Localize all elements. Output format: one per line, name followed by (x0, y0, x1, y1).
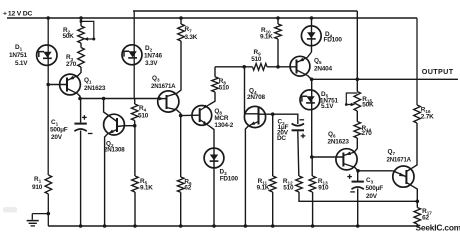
wire upper rail drop (356, 11, 358, 92)
svg-text:910: 910 (318, 185, 329, 192)
wire Q2 base lead (104, 99, 117, 122)
svg-text:510: 510 (251, 56, 262, 63)
label Q8 type (214, 115, 233, 129)
label D3 value (220, 176, 239, 183)
node C1 ground junction (79, 224, 83, 228)
label R8 value (219, 85, 230, 92)
node +12V/D4 junction (310, 16, 314, 20)
label R4 value (138, 113, 149, 120)
resistor R13 (309, 176, 316, 192)
wire junction to R6 (180, 116, 182, 177)
label C2 value (277, 124, 289, 142)
label R12 value (283, 185, 294, 192)
node +12V/D1 junction (46, 16, 50, 20)
label R4 (139, 105, 147, 113)
wire rail to R10 (277, 18, 279, 24)
resistor R3 (78, 48, 85, 68)
label D1 value (9, 52, 28, 67)
wire bus to R4 (134, 99, 136, 105)
node C1 junction (78, 97, 82, 101)
wire Q2 collector (124, 125, 134, 127)
resistor R11 (269, 176, 276, 192)
svg-text:270: 270 (362, 130, 373, 137)
wire R8 drop (214, 67, 216, 77)
svg-text:2.7K: 2.7K (421, 114, 434, 121)
wire R1 to ground node (47, 194, 49, 214)
label Q6 (328, 131, 336, 139)
svg-text:500μF: 500μF (50, 127, 68, 134)
transistor Q1 (60, 74, 81, 95)
wire Q7 B1 to R17 (412, 186, 418, 208)
wire D1 column (47, 18, 49, 175)
transistor Q5 (290, 56, 310, 76)
node R10/Q5 junction (276, 65, 280, 69)
label OUTPUT (422, 67, 454, 76)
svg-text:2N1623: 2N1623 (84, 85, 106, 92)
wire junction to R13 (311, 157, 313, 176)
svg-text:9.1K: 9.1K (260, 34, 273, 41)
transistor Q4 (244, 106, 272, 127)
svg-text:9.1K: 9.1K (257, 185, 270, 192)
label D2 value (144, 53, 162, 68)
node upper-rail/output junction (356, 78, 360, 82)
label R11 (258, 178, 268, 186)
label R12 (283, 178, 293, 186)
wire R8 to Q8 anode (209, 92, 215, 105)
svg-text:270: 270 (66, 61, 77, 68)
wire R16 to Q7 B2 (412, 123, 417, 168)
wire ground stub (47, 214, 49, 226)
node Q3/R6/Q8 junction (179, 114, 183, 118)
wire R11 drop (272, 114, 274, 176)
label D3 (220, 169, 228, 177)
SCR Q8 (192, 105, 212, 126)
label R13 (318, 178, 328, 186)
label C1 plus (82, 115, 87, 120)
label R2 (63, 27, 71, 35)
label Q2 type (104, 147, 125, 154)
label C3 plus (347, 174, 352, 179)
svg-text:5.1V: 5.1V (15, 60, 28, 67)
svg-text:5.1V: 5.1V (321, 103, 334, 110)
label R17 (422, 208, 432, 216)
wire R15-R14 (356, 111, 358, 122)
label D5 value (320, 97, 338, 110)
label R3 (66, 54, 74, 62)
svg-text:2N708: 2N708 (247, 94, 265, 101)
wire Q1 collector down (77, 94, 80, 99)
label R9 value (251, 56, 262, 63)
node Q2 base junction (102, 97, 106, 101)
capacitor C1 (74, 124, 86, 132)
wire R8 top to R9 (215, 66, 253, 68)
wire R11 to ground rail (272, 192, 274, 226)
node R13 ground junction (311, 224, 315, 228)
label Q5 (314, 58, 322, 66)
wire R4 to junction (134, 121, 136, 126)
wire R14 to Q6 emitter (354, 138, 357, 152)
svg-text:9.1K: 9.1K (140, 185, 153, 192)
svg-text:2N1671A: 2N1671A (387, 157, 412, 164)
wire Q4 emitter down (245, 126, 248, 226)
wire Q5 emitter to node (307, 75, 311, 79)
label Q2 (106, 141, 114, 149)
wire R2-R3 (80, 43, 82, 48)
ground (27, 214, 39, 226)
label R8 (219, 78, 227, 86)
wire upper rail left drop to D2 (133, 11, 135, 99)
capacitor C3 (352, 182, 364, 190)
resistor R2 (pot) (78, 26, 85, 43)
label R16 (421, 107, 431, 115)
svg-text:+ 12 V DC: + 12 V DC (3, 11, 33, 18)
label R9 (254, 49, 262, 57)
transistor Q2 (104, 114, 125, 135)
label R2 value (63, 33, 75, 40)
zener diode D2 (122, 45, 142, 65)
label D4 (325, 31, 333, 39)
label R6 (184, 179, 192, 187)
svg-text:500μF: 500μF (366, 185, 384, 192)
label C2 minus (300, 119, 305, 121)
pot wiper loop R2 (80, 20, 96, 41)
node +12V/R2 junction (79, 16, 83, 20)
node D5/R13/Q6 junction (310, 155, 314, 159)
wire R6 to ground rail (180, 192, 182, 226)
svg-text:510: 510 (283, 185, 294, 192)
wire R10 to bus (277, 39, 279, 67)
label R10 value (260, 34, 273, 41)
resistor R15 (pot) (354, 92, 361, 112)
wire bus to C1 (80, 99, 82, 123)
label R7 (185, 26, 193, 34)
svg-text:510: 510 (219, 85, 230, 92)
svg-text:2N1623: 2N1623 (328, 139, 350, 146)
label C2 plus (301, 134, 306, 139)
svg-text:3.3V: 3.3V (145, 60, 158, 67)
label R15 (362, 96, 372, 104)
resistor R14 (354, 122, 361, 139)
node +12V/R10 junction (276, 16, 280, 20)
svg-text:2N1671A: 2N1671A (151, 83, 176, 90)
label C1 value (50, 127, 68, 142)
label R14 value (362, 130, 373, 137)
label C1 (51, 119, 59, 127)
label C3 (366, 177, 374, 185)
node D1/Q1 base junction (46, 83, 50, 87)
watermark (416, 223, 460, 233)
node Q4 collector junction (271, 112, 275, 116)
label Q7 type (387, 157, 412, 164)
label Q8 (214, 108, 222, 116)
label R13 value (318, 185, 329, 192)
wire Q8 cathode to D3 (209, 126, 214, 226)
unijunction Q7 (393, 166, 414, 187)
node Q6/C3/Q7 junction (356, 169, 360, 173)
zener diode D1 (37, 45, 57, 65)
resistor R8 (212, 77, 219, 92)
wire Q4 collector to C2 (273, 114, 298, 124)
svg-text:20V: 20V (366, 193, 378, 200)
label R16 value (421, 114, 434, 121)
wire node to D5 (311, 79, 313, 157)
svg-text:50K: 50K (362, 102, 374, 109)
label D4 value (324, 37, 343, 44)
wire Q6 base (312, 156, 344, 158)
resistor R1 (45, 175, 52, 194)
node Q2/R4/R5 junction (133, 124, 137, 128)
node R5 ground junction (133, 224, 137, 228)
wire C2 to R12 (298, 131, 299, 176)
svg-text:1N751: 1N751 (9, 52, 27, 59)
label R5 value (140, 185, 153, 192)
svg-text:62: 62 (184, 185, 191, 192)
label R14 (362, 125, 372, 133)
resistor R4 (131, 104, 138, 121)
label C3 value (366, 185, 384, 200)
svg-text:20V: 20V (51, 134, 63, 141)
svg-text:DC: DC (277, 135, 286, 142)
resistor R12 (296, 176, 303, 192)
wire upper rail (D2 to output column) (133, 10, 357, 12)
node Q5/D5/output junction (310, 78, 314, 82)
pot wiper loop R15 (345, 93, 357, 106)
wire R5 to ground rail (134, 192, 136, 226)
label D1 (15, 44, 23, 52)
node C3 ground junction (356, 224, 360, 228)
svg-text:910: 910 (32, 184, 43, 191)
zener diode D5 (300, 90, 320, 110)
label R11 value (257, 185, 270, 192)
label Q5 type (314, 66, 332, 73)
svg-text:SeekIC.com: SeekIC.com (416, 223, 460, 233)
label Q4 (249, 88, 257, 96)
resistor R17 (414, 208, 421, 225)
svg-text:MCR: MCR (214, 115, 229, 122)
wire Q2 emitter down (105, 134, 108, 226)
wire right rail drop (x=417) (416, 18, 418, 105)
label Q3 (152, 75, 160, 83)
label R17 value (422, 215, 429, 222)
wire junction to R5 (134, 126, 136, 176)
transistor Q6 (336, 149, 357, 170)
resistor R5 (132, 176, 139, 192)
wire bus Q1-Q3 (80, 98, 159, 100)
wire Q1 base (48, 84, 67, 86)
wire R3 to Q1 emitter (77, 67, 81, 76)
label R3 value (66, 61, 77, 68)
label R7 value (185, 34, 198, 41)
node D3 ground junction (212, 224, 216, 228)
svg-text:1N746: 1N746 (144, 53, 162, 60)
smudge artifact (3, 207, 17, 213)
label R1 (34, 176, 42, 184)
label R15 value (362, 102, 374, 109)
svg-text:FD100: FD100 (324, 37, 343, 44)
label D5 (321, 91, 329, 99)
wire rail to D4 (311, 18, 313, 52)
svg-text:50K: 50K (63, 33, 75, 40)
label C1 minus (88, 133, 93, 135)
node R6 ground junction (179, 224, 183, 228)
svg-text:510: 510 (138, 113, 149, 120)
wire D4 to Q5 (307, 52, 311, 58)
diode D3 (204, 148, 224, 168)
wire R13 to ground rail (312, 192, 314, 226)
svg-text:1304-2: 1304-2 (214, 122, 233, 129)
label Q1 (84, 77, 92, 85)
label C3 minus (350, 191, 355, 193)
wire C3 bus (358, 170, 393, 172)
node ground junction (47, 212, 51, 216)
label Q7 (388, 149, 396, 157)
resistor R6 (177, 177, 184, 192)
wire +12V top rail (7, 17, 417, 19)
wire rail to R2 (80, 18, 82, 26)
wire Q8 gate (181, 114, 200, 116)
svg-text:2N1308: 2N1308 (104, 147, 125, 154)
svg-text:2N404: 2N404 (314, 66, 332, 73)
label C2 (278, 119, 286, 127)
label D2 (145, 45, 153, 53)
resistor R10 (275, 24, 282, 39)
svg-text:62: 62 (422, 215, 429, 222)
wire rail to R7 (180, 18, 182, 24)
wire C1 to ground rail (80, 131, 82, 227)
wire Q4 base drop (245, 67, 259, 114)
label Q4 type (247, 94, 265, 101)
label Q6 type (328, 139, 350, 146)
label Q3 type (151, 83, 176, 90)
label R1 value (32, 184, 43, 191)
label Q1 type (84, 85, 106, 92)
wire Q3 B1 down (177, 110, 181, 116)
capacitor C2 (292, 124, 304, 131)
svg-text:OUTPUT: OUTPUT (422, 67, 454, 76)
label R5 (140, 178, 148, 186)
wire R12 bottom run (299, 192, 418, 201)
label +12 V DC (3, 11, 33, 18)
svg-text:3.3K: 3.3K (185, 34, 198, 41)
node R9/Q4 junction (242, 65, 246, 69)
label R6 value (184, 185, 191, 192)
wire C3 top (357, 171, 359, 181)
resistor R9 (253, 64, 268, 71)
label R10 (261, 27, 271, 35)
wire bottom ground rail (48, 225, 419, 227)
diode D4 (301, 26, 321, 46)
svg-text:FD100: FD100 (220, 176, 239, 183)
node +12V/R7 junction (179, 16, 183, 20)
wire R9 to Q5 base (267, 66, 297, 68)
resistor R7 (178, 24, 185, 41)
wire to ground symbol (32, 213, 48, 215)
wire Q6 collector to node (355, 167, 358, 171)
wire R17 to ground rail (416, 224, 418, 226)
node Q2 ground junction (103, 224, 107, 228)
unijunction Q3 (158, 91, 179, 112)
resistor R16 (414, 105, 421, 123)
node Q7/R12/R17 junction (416, 200, 420, 204)
wire output line (312, 78, 458, 80)
node R11 ground junction (271, 224, 275, 228)
node Q4 ground junction (244, 224, 248, 228)
wire Q3 B2 to R7 (177, 41, 181, 93)
wire C3 to ground rail (357, 189, 359, 227)
